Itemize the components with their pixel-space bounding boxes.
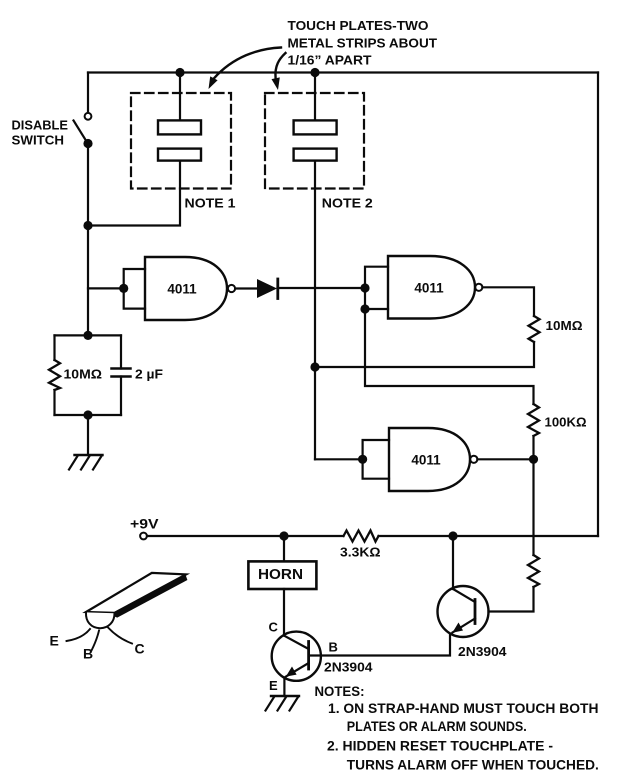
- wire: U1B output to feedback resistor: [482, 287, 534, 316]
- wire: R4 to rail corner: [379, 535, 599, 537]
- node: top rail to plate 1: [175, 68, 184, 77]
- wire: C1 bottom lead: [120, 377, 122, 416]
- wire: U1A input tie bracket: [124, 269, 145, 309]
- ground below RC network: [69, 455, 103, 470]
- svg-text:1. ON STRAP-HAND MUST TOUCH BO: 1. ON STRAP-HAND MUST TOUCH BOTH: [328, 700, 599, 716]
- wire: plate 1 return: [88, 161, 180, 226]
- lead line B package: [92, 631, 100, 651]
- svg-text:DISABLE: DISABLE: [12, 117, 69, 132]
- wire: RC network top: [55, 334, 122, 336]
- node: plate1 return junction: [83, 221, 92, 230]
- svg-text:METAL STRIPS ABOUT: METAL STRIPS ABOUT: [288, 35, 438, 50]
- resistor R5 base resistor: [528, 555, 539, 587]
- wire: drop to touch plate 1: [179, 73, 181, 121]
- transistor Q2 2N3904: [438, 586, 489, 637]
- node: U1A input junction: [119, 284, 128, 293]
- svg-text:2N3904: 2N3904: [458, 644, 507, 659]
- svg-text:2 µF: 2 µF: [135, 367, 163, 382]
- annotation arrow to note 2 box: [272, 53, 286, 90]
- wire: horn feed: [283, 536, 285, 561]
- lead line E package: [67, 629, 91, 641]
- svg-text:B: B: [329, 640, 338, 655]
- terminal: +9V: [140, 533, 147, 540]
- svg-text:PLATES OR ALARM SOUNDS.: PLATES OR ALARM SOUNDS.: [347, 718, 527, 734]
- wire: R1 bottom lead: [53, 390, 55, 415]
- svg-text:2. HIDDEN RESET TOUCHPLATE -: 2. HIDDEN RESET TOUCHPLATE -: [327, 738, 553, 754]
- touch plate 2 lower strip: [294, 149, 337, 161]
- touch plate 2 upper strip: [294, 120, 337, 134]
- node: U1B input junction upper: [360, 283, 369, 292]
- resistor R2 10M feedback: [529, 316, 540, 342]
- wire: Q1 base to Q2 emitter: [309, 634, 450, 656]
- node: U1C output junction: [529, 455, 538, 464]
- svg-text:E: E: [50, 633, 59, 649]
- wire: diode to gate U1B input: [278, 287, 366, 289]
- lead line C package: [108, 628, 132, 644]
- wire: left rail below switch: [87, 144, 89, 336]
- node: RC network top: [83, 331, 92, 340]
- svg-text:E: E: [269, 678, 278, 693]
- wire: U1A output to diode: [235, 287, 257, 289]
- horn box: [248, 561, 316, 589]
- wire: C1 top lead: [120, 335, 122, 368]
- resistor R3 100K: [528, 404, 539, 436]
- wire: horn to Q1 collector: [283, 589, 285, 636]
- notes text block: [315, 683, 599, 773]
- wire: down from U1C node crossing 9V line: [532, 459, 534, 555]
- transistor package drawing TO-92: [86, 573, 187, 628]
- svg-text:10MΩ: 10MΩ: [64, 367, 103, 382]
- node: top rail to plate 2: [310, 68, 319, 77]
- node: feedback joins plate2 line: [310, 362, 319, 371]
- svg-text:NOTE 2: NOTE 2: [322, 196, 373, 211]
- svg-text:SWITCH: SWITCH: [12, 133, 65, 148]
- svg-text:1/16” APART: 1/16” APART: [288, 52, 372, 67]
- wire: left rail to switch: [87, 73, 89, 113]
- svg-text:TURNS ALARM OFF WHEN TOUCHED.: TURNS ALARM OFF WHEN TOUCHED.: [347, 757, 599, 773]
- node: U1B input junction lower: [360, 304, 369, 313]
- ground below Q1: [266, 696, 300, 711]
- wire: drop to touch plate 2: [314, 73, 316, 121]
- wire: U1B input tie bracket: [365, 267, 388, 309]
- wire: U1B input to R3: [365, 309, 534, 404]
- wire: RC to ground: [87, 415, 89, 455]
- svg-text:100KΩ: 100KΩ: [545, 415, 587, 430]
- node: Q2 collector tap: [448, 531, 457, 540]
- touch plate 1 upper strip: [158, 120, 201, 134]
- wire: R5 to Q2 base: [489, 587, 534, 612]
- wire: Q2 collector from 9V node: [452, 536, 454, 589]
- wire: R1 top lead: [53, 335, 55, 360]
- label DISABLE SWITCH: [12, 117, 69, 147]
- switch S1 open terminal: [85, 113, 92, 120]
- node: horn tap: [279, 531, 288, 540]
- op-amp gate U1B 4011: [388, 256, 482, 319]
- wire: 9V feed: [147, 535, 344, 537]
- wire: RC network bottom: [55, 414, 122, 416]
- touch plate pair 2 dashed box: [265, 93, 364, 189]
- wire: top supply rail: [88, 71, 598, 73]
- switch S1 blade: [74, 121, 88, 144]
- annotation: touch plates text: [288, 18, 438, 67]
- svg-text:4011: 4011: [414, 281, 444, 296]
- annotation arrow to note 1 box: [209, 48, 282, 90]
- wire: plate 2 down to gate U1C input: [314, 161, 316, 460]
- svg-text:C: C: [269, 620, 279, 635]
- svg-text:3.3KΩ: 3.3KΩ: [340, 545, 381, 560]
- svg-text:HORN: HORN: [258, 567, 303, 583]
- svg-text:2N3904: 2N3904: [324, 660, 373, 675]
- op-amp gate U1A 4011: [145, 257, 235, 320]
- touch plate 1 lower strip: [158, 149, 201, 161]
- wire: R2 bottom back to input net: [315, 342, 534, 367]
- resistor R4 3.3K: [344, 531, 379, 542]
- wire: Q1 emitter to ground: [283, 678, 285, 697]
- node: RC network bottom: [83, 410, 92, 419]
- svg-text:NOTES:: NOTES:: [315, 683, 365, 699]
- svg-text:4011: 4011: [167, 282, 197, 297]
- op-amp gate U1C 4011: [389, 428, 477, 491]
- transistor Q1 2N3904: [272, 632, 321, 681]
- wire: right vertical rail: [597, 73, 599, 537]
- resistor R1 10M: [49, 360, 60, 390]
- svg-text:TOUCH PLATES-TWO: TOUCH PLATES-TWO: [288, 18, 429, 33]
- svg-text:B: B: [83, 646, 93, 662]
- diode D1: [257, 279, 278, 299]
- svg-text:NOTE 1: NOTE 1: [185, 196, 236, 211]
- svg-text:C: C: [135, 641, 145, 657]
- touch plate pair 1 dashed box: [131, 93, 231, 189]
- wire: gate U1A input from rail: [88, 287, 124, 289]
- capacitor C1 2uF: [112, 369, 131, 377]
- wire: R3 bottom to U1C output node: [532, 436, 534, 459]
- wire: U1C output: [477, 458, 533, 460]
- wire: plate2 line into U1C input: [315, 458, 363, 460]
- svg-text:4011: 4011: [411, 453, 441, 468]
- wire: U1C input tie bracket: [363, 440, 389, 479]
- node: U1C input junction: [358, 455, 367, 464]
- switch S1 bottom contact dot: [83, 139, 92, 148]
- svg-text:10MΩ: 10MΩ: [546, 318, 583, 333]
- svg-text:+9V: +9V: [130, 516, 159, 532]
